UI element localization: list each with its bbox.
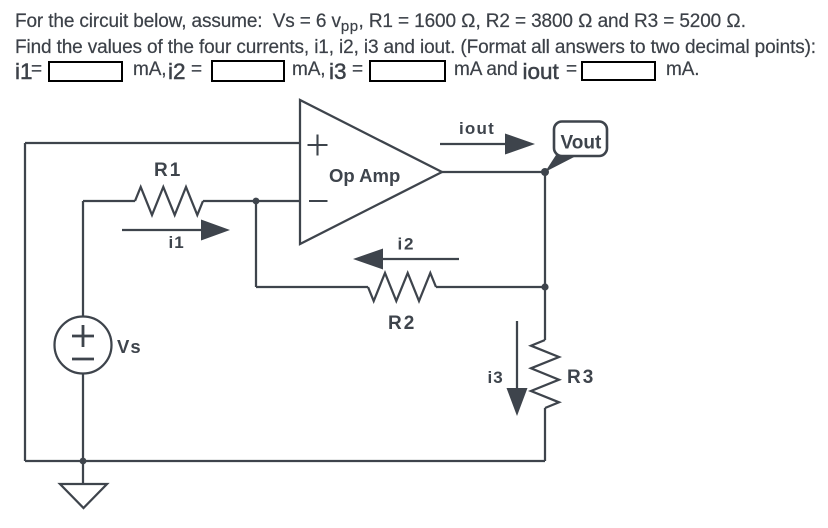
current arrow i2 (353, 249, 459, 270)
wire: feedback left segment (256, 286, 368, 288)
current arrow i3 (507, 321, 528, 416)
svg-text:Vout: Vout (561, 133, 602, 154)
junction: output node (541, 168, 549, 176)
junction: feedback / R3 node (541, 283, 548, 290)
wire: feedback vertical from inverting node (255, 201, 257, 287)
svg-text:Op Amp: Op Amp (329, 165, 400, 186)
ground (60, 461, 107, 508)
node Vout (545, 122, 607, 173)
svg-text:R1: R1 (154, 160, 182, 181)
wire: feedback right segment (436, 286, 545, 288)
answer row label i2 (168, 61, 186, 84)
answer box i2 (211, 60, 285, 82)
problem text line 2 (15, 37, 816, 59)
wire: R1 to inverting input (203, 200, 300, 202)
junction: inverting input node (253, 198, 260, 205)
answer row label iout (523, 61, 559, 84)
wire: R1 left lead (83, 200, 135, 202)
svg-text:Vs: Vs (117, 336, 142, 357)
wire: bottom ground rail (25, 460, 545, 462)
resistor R3 (531, 340, 559, 408)
wire: op-amp output (442, 171, 545, 173)
answer row label i3 (329, 61, 347, 84)
answer box iout (581, 61, 656, 81)
svg-text:iout: iout (459, 119, 495, 138)
svg-text:R2: R2 (388, 313, 416, 334)
svg-text:i1: i1 (169, 233, 185, 252)
answer box i1 (48, 61, 123, 82)
op-amp U1 (300, 100, 442, 244)
wire: top rail from left rail to op-amp + input (25, 142, 300, 144)
svg-text:i3: i3 (488, 368, 504, 387)
wire: Vs top lead up to R1 node (82, 201, 84, 317)
wire: left vertical rail (24, 143, 26, 461)
wire: Vs bottom lead (82, 374, 84, 462)
svg-text:R3: R3 (567, 367, 595, 388)
problem text line 1 (15, 11, 746, 35)
voltage source Vs (55, 317, 112, 374)
answer row label i1 (15, 61, 33, 84)
current arrow iout (440, 134, 535, 155)
answer box i3 (369, 60, 446, 82)
svg-text:i2: i2 (398, 235, 416, 254)
wire: R3 top lead (544, 287, 546, 340)
resistor R2 (368, 273, 436, 301)
wire: output vertical to feedback node (544, 172, 546, 287)
resistor R1 (135, 187, 203, 215)
junction: ground node (80, 458, 87, 465)
wire: R3 bottom lead (544, 408, 546, 461)
current arrow i1 (122, 220, 230, 241)
